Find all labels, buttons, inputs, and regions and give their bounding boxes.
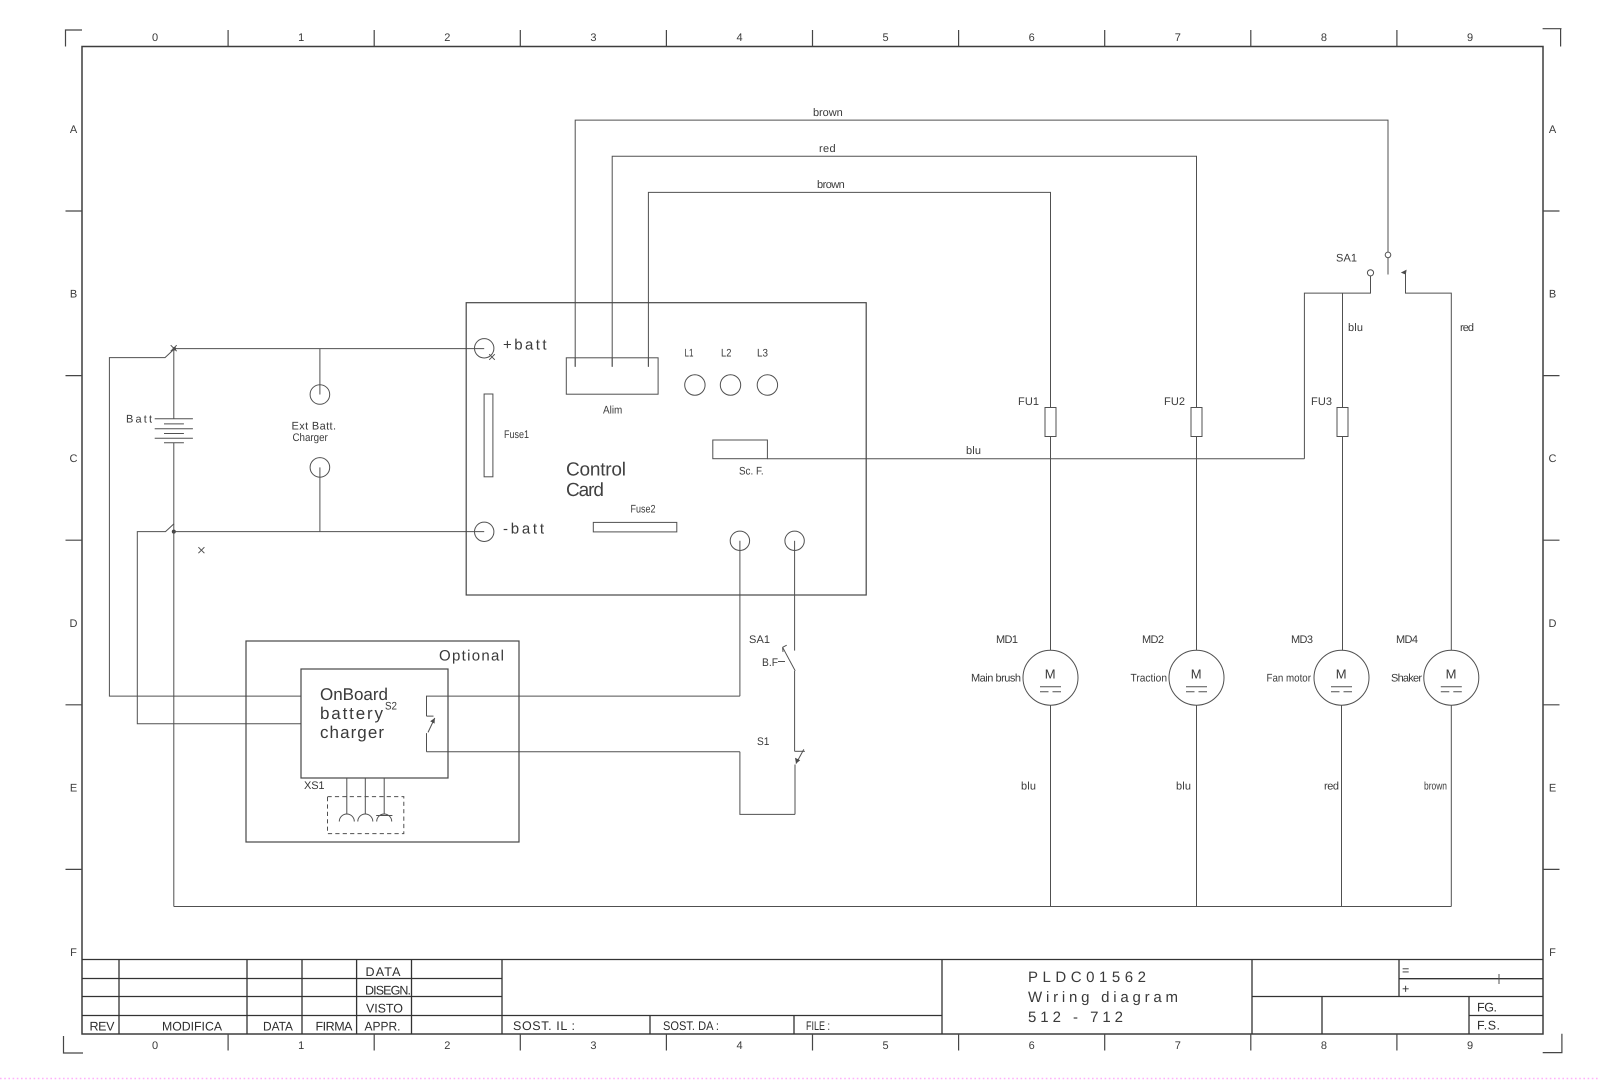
svg-text:DISEGN.: DISEGN. <box>365 984 411 998</box>
svg-text:7: 7 <box>1175 1040 1181 1052</box>
wire SA1 right throw to MD4 <box>1406 272 1452 651</box>
wire FU2 to motor <box>1196 437 1198 651</box>
svg-text:VISTO: VISTO <box>366 1002 403 1016</box>
terminal -batt <box>475 522 494 541</box>
connector XS1 <box>328 778 404 834</box>
svg-text:C: C <box>1549 453 1557 465</box>
svg-text:M: M <box>1336 667 1347 682</box>
wire MD3 to bus <box>1341 705 1343 906</box>
wire SA1 left throw to blu node <box>1304 276 1370 459</box>
svg-text:5: 5 <box>883 1040 889 1052</box>
wire -batt branch to onboard charger <box>137 524 301 724</box>
svg-text:S1: S1 <box>757 736 769 748</box>
svg-text:S2: S2 <box>385 701 397 713</box>
svg-text:Shaker: Shaker <box>1391 673 1422 685</box>
fuse FU3 <box>1337 408 1348 437</box>
lamp L3 <box>757 375 777 395</box>
svg-text:MD1: MD1 <box>996 634 1018 646</box>
wire -batt to bus <box>173 532 175 907</box>
svg-text:A: A <box>70 124 78 136</box>
svg-text:Batt: Batt <box>126 414 152 426</box>
svg-text:5: 5 <box>883 32 889 44</box>
svg-text:FU1: FU1 <box>1018 396 1039 408</box>
svg-text:Fan motor: Fan motor <box>1267 673 1312 685</box>
connector Ext Batt. Charger plug <box>310 349 330 405</box>
terminal card pin A <box>730 531 749 550</box>
svg-text:brown: brown <box>813 107 843 119</box>
svg-text:D: D <box>70 618 78 630</box>
svg-text:APPR.: APPR. <box>365 1020 401 1034</box>
svg-text:1: 1 <box>298 32 304 44</box>
svg-text:B: B <box>70 289 77 301</box>
svg-text:6: 6 <box>1029 1040 1035 1052</box>
wire FU1 to motor <box>1050 437 1052 651</box>
svg-text:Optional: Optional <box>439 648 504 665</box>
page bottom scan artifact dotted line <box>0 1078 1600 1080</box>
svg-text:4: 4 <box>736 1040 742 1052</box>
svg-text:7: 7 <box>1175 32 1181 44</box>
marker x <box>198 547 204 553</box>
svg-text:Fuse1: Fuse1 <box>504 429 529 441</box>
wire S2 output to S1 <box>427 751 740 753</box>
svg-text:-batt: -batt <box>503 521 545 538</box>
fuse FU1 <box>1045 408 1056 437</box>
svg-text:B.F: B.F <box>762 657 778 669</box>
svg-text:Alim: Alim <box>603 405 622 417</box>
connector Ext Batt. Charger socket <box>310 458 330 532</box>
label OnBoard battery charger <box>320 685 388 742</box>
terminal card pin B <box>785 531 804 550</box>
fuse Fuse1 <box>484 394 493 477</box>
wire brown (Alim pin3 to FU1) <box>648 192 1050 407</box>
wire red (Alim pin2 to FU2) <box>612 156 1196 407</box>
svg-text:F: F <box>1549 947 1556 959</box>
svg-text:L3: L3 <box>757 348 768 360</box>
terminal +batt <box>475 339 495 360</box>
svg-text:XS1: XS1 <box>304 780 325 792</box>
svg-text:F: F <box>70 947 77 959</box>
title block <box>82 960 1543 1035</box>
wire MD2 to bus <box>1196 705 1198 906</box>
svg-text:9: 9 <box>1467 32 1473 44</box>
svg-text:blu: blu <box>1021 781 1036 793</box>
svg-text:brown: brown <box>1424 781 1447 793</box>
svg-text:9: 9 <box>1467 1040 1473 1052</box>
svg-text:+: + <box>1402 982 1409 996</box>
wire branch to FU3 <box>1342 293 1344 407</box>
svg-text:SOST. DA :: SOST. DA : <box>663 1019 719 1033</box>
svg-text:8: 8 <box>1321 1040 1327 1052</box>
svg-text:MD4: MD4 <box>1396 634 1418 646</box>
svg-text:FILE :: FILE : <box>806 1019 830 1033</box>
svg-text:F.S.: F.S. <box>1477 1019 1500 1033</box>
motor MD1 Main brush <box>1023 650 1078 705</box>
wire card pin B to SA1 aux <box>794 541 796 651</box>
svg-text:FU2: FU2 <box>1164 396 1185 408</box>
switch S1 <box>795 749 805 814</box>
svg-text:3: 3 <box>590 32 596 44</box>
node +batt junction <box>171 345 177 351</box>
svg-text:0: 0 <box>152 1040 158 1052</box>
svg-text:1: 1 <box>298 1040 304 1052</box>
wire S1 return link <box>740 752 795 815</box>
wire battery negative to card terminal <box>174 531 484 533</box>
svg-text:Traction: Traction <box>1131 673 1168 685</box>
svg-text:red: red <box>819 143 836 155</box>
lamp L2 <box>720 375 740 395</box>
wire blu (Sc.F. output) <box>767 458 1304 460</box>
connector Alim <box>566 358 658 394</box>
svg-text:=: = <box>1402 964 1409 978</box>
svg-text:FG.: FG. <box>1477 1001 1497 1015</box>
actuator dash <box>778 661 785 663</box>
svg-text:FU3: FU3 <box>1311 396 1332 408</box>
svg-text:red: red <box>1324 781 1339 793</box>
label Ext Batt. Charger <box>292 421 337 445</box>
lamp L1 <box>685 375 705 395</box>
wire MD1 to bus <box>1050 705 1052 906</box>
svg-text:L2: L2 <box>721 348 731 360</box>
svg-text:2: 2 <box>444 1040 450 1052</box>
svg-text:Fuse2: Fuse2 <box>631 504 656 516</box>
svg-text:FIRMA: FIRMA <box>316 1020 354 1034</box>
svg-text:REV: REV <box>90 1020 116 1034</box>
wire MD4 to bus <box>1450 705 1452 906</box>
svg-text:4: 4 <box>736 32 742 44</box>
battery Batt <box>155 349 193 532</box>
optional equipment box <box>246 641 519 842</box>
svg-text:8: 8 <box>1321 32 1327 44</box>
svg-text:OnBoard: OnBoard <box>320 685 388 704</box>
motor MD4 Shaker <box>1424 650 1479 705</box>
svg-text:Control: Control <box>566 460 626 481</box>
svg-text:blu: blu <box>966 445 981 457</box>
wire negative return bus <box>174 906 1452 908</box>
svg-text:M: M <box>1191 667 1202 682</box>
svg-text:0: 0 <box>152 32 158 44</box>
control card box <box>466 303 866 595</box>
switch SA1 battery key switch <box>1367 252 1406 276</box>
svg-text:red: red <box>1460 322 1474 334</box>
wire FU3 to motor <box>1342 437 1344 651</box>
svg-text:MD3: MD3 <box>1291 634 1313 646</box>
svg-text:DATA: DATA <box>263 1020 294 1034</box>
svg-text:Card: Card <box>566 480 604 501</box>
svg-text:512 - 712: 512 - 712 <box>1028 1009 1123 1026</box>
svg-text:Ext Batt.: Ext Batt. <box>292 421 337 433</box>
wire battery positive to card terminal <box>174 348 484 350</box>
svg-text:brown: brown <box>817 179 845 191</box>
switch S2 charger interlock <box>427 696 740 752</box>
svg-text:blu: blu <box>1348 322 1363 334</box>
node -batt junction <box>172 530 176 534</box>
relay Sc.F. <box>713 440 768 459</box>
svg-text:D: D <box>1549 618 1557 630</box>
OnBoard battery charger box <box>301 669 448 778</box>
svg-text:Sc. F.: Sc. F. <box>739 466 764 478</box>
switch SA1 aux contact <box>783 645 796 751</box>
motor MD3 Fan motor <box>1314 650 1369 705</box>
label Control Card <box>566 460 626 502</box>
svg-text:MD2: MD2 <box>1142 634 1164 646</box>
fuse Fuse2 <box>593 522 677 532</box>
svg-text:blu: blu <box>1176 781 1191 793</box>
fuse FU2 <box>1191 408 1202 437</box>
svg-text:A: A <box>1549 124 1557 136</box>
svg-text:battery: battery <box>320 704 384 723</box>
svg-text:6: 6 <box>1029 32 1035 44</box>
svg-text:+batt: +batt <box>503 337 547 354</box>
svg-text:PLDC01562: PLDC01562 <box>1028 969 1146 986</box>
svg-text:Charger: Charger <box>293 432 329 444</box>
svg-text:L1: L1 <box>685 348 694 360</box>
wire brown (Alim pin1 to SA1 common) <box>575 120 1388 367</box>
svg-text:B: B <box>1549 289 1556 301</box>
wire +batt branch to key line <box>109 349 301 696</box>
svg-text:charger: charger <box>320 723 384 742</box>
svg-text:E: E <box>1549 782 1556 794</box>
svg-text:M: M <box>1446 667 1457 682</box>
motor MD2 Traction <box>1169 650 1224 705</box>
svg-text:MODIFICA: MODIFICA <box>162 1020 223 1034</box>
svg-text:M: M <box>1045 667 1056 682</box>
svg-text:3: 3 <box>590 1040 596 1052</box>
wire card pin A to key line <box>739 541 741 696</box>
svg-text:SOST. IL :: SOST. IL : <box>513 1019 575 1033</box>
svg-text:Wiring diagram: Wiring diagram <box>1028 989 1178 1006</box>
svg-text:SA1: SA1 <box>749 634 770 646</box>
svg-text:C: C <box>70 453 78 465</box>
svg-text:E: E <box>70 782 77 794</box>
svg-text:DATA: DATA <box>366 965 402 979</box>
svg-text:Main brush: Main brush <box>971 673 1021 685</box>
svg-text:2: 2 <box>444 32 450 44</box>
svg-text:SA1: SA1 <box>1336 253 1357 265</box>
